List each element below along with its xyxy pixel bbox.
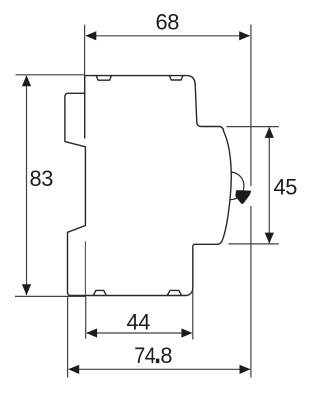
svg-text:45: 45 — [273, 175, 297, 200]
extension line top of 45 dim — [227, 126, 279, 128]
svg-text:74: 74 — [134, 343, 155, 368]
bottom foot bump left — [93, 290, 106, 295]
body/clip boundary edge (behind upper DIN clip) — [84, 93, 86, 138]
breaker body outline — [65, 76, 231, 296]
dimension line 74.8 — [69, 368, 250, 370]
svg-text:68: 68 — [155, 9, 179, 34]
extension line bottom of 45 dim — [229, 243, 279, 245]
arrowhead 44 left — [86, 328, 97, 337]
dimension line 83 — [26, 76, 28, 295]
extension line left of 68 dim (top) — [84, 25, 86, 76]
bottom foot bump right — [167, 290, 181, 295]
dimension line 68 — [86, 35, 250, 37]
extension line left of 74.8 dim — [67, 296, 69, 378]
dimension line 45 — [268, 128, 270, 244]
extension line right of 44 dim — [192, 291, 194, 340]
arrowhead 68 right — [239, 31, 250, 40]
extension line right (shared), lower part — [250, 206, 252, 378]
extension line bottom of 83 dim — [15, 295, 86, 297]
svg-text:44: 44 — [126, 309, 150, 334]
toggle handle (black) — [235, 190, 251, 204]
extension line right (shared 68 / 45 / 74.8), upper part — [250, 25, 252, 186]
top groove notch left — [96, 76, 111, 81]
svg-text:83: 83 — [29, 166, 53, 191]
arrowhead 68 left — [85, 31, 96, 40]
lower DIN clip inner edge — [84, 241, 86, 294]
arrowhead 45 up — [265, 127, 274, 138]
arrowhead 74.8 right — [240, 365, 251, 374]
extension line left of 44 dim — [85, 297, 87, 339]
arrowhead 44 right — [181, 328, 192, 337]
arrowhead 74.8 left — [68, 365, 79, 374]
dimension line 44 — [87, 332, 192, 334]
arrowhead 83 down — [22, 284, 31, 295]
arrowhead 45 down — [265, 233, 274, 244]
svg-text:8: 8 — [160, 343, 172, 368]
extension line top of 83 dim — [16, 74, 85, 76]
arrowhead 83 up — [22, 75, 31, 86]
toggle housing arc — [230, 172, 244, 200]
top groove notch right — [169, 76, 183, 80]
